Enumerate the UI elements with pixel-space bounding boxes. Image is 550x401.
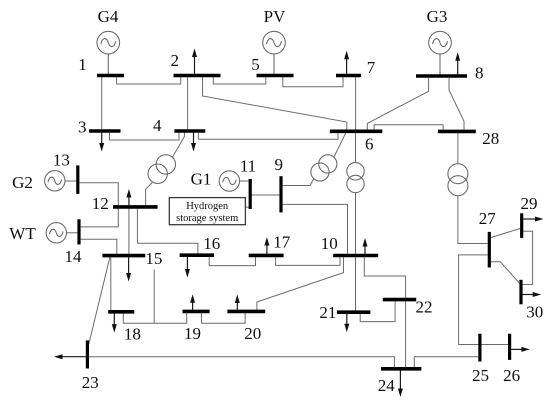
svg-text:2: 2 <box>170 51 179 70</box>
generator G3 <box>429 31 452 74</box>
svg-text:27: 27 <box>479 209 497 228</box>
svg-text:G3: G3 <box>427 7 448 26</box>
bus 16 <box>180 253 214 257</box>
wire 15-23 diagonal <box>88 258 110 349</box>
wire 24-25 <box>414 357 478 367</box>
generator G2 <box>45 171 65 191</box>
bus 9 <box>279 176 282 212</box>
svg-text:12: 12 <box>92 194 109 213</box>
bus 21 <box>337 310 371 314</box>
bus 5 <box>257 74 294 78</box>
wire transformer T6-9 to bus 9 <box>283 179 314 186</box>
wire 8-6 <box>367 78 428 130</box>
bus 30 <box>519 280 522 305</box>
load arrow bus 2 <box>192 49 197 75</box>
wire 10-21 <box>355 257 357 310</box>
wire 22-24 <box>405 301 407 367</box>
svg-text:Hydrogen: Hydrogen <box>186 201 229 212</box>
wire 27-30 <box>491 262 520 284</box>
svg-text:4: 4 <box>153 116 162 135</box>
bus 25 <box>478 334 481 362</box>
svg-text:30: 30 <box>526 302 543 321</box>
bus 18 <box>108 310 134 314</box>
wire 6-7 <box>355 77 357 130</box>
svg-text:1: 1 <box>78 55 87 74</box>
wire 25-26 <box>482 344 509 346</box>
bus 2 <box>174 74 221 78</box>
wire 15-19 vertical <box>153 270 155 324</box>
wire 8-28 <box>449 78 464 130</box>
load arrow bus 26 <box>511 347 530 352</box>
wire G2 lead <box>65 180 77 182</box>
load arrow bus 24 <box>398 371 403 398</box>
svg-text:24: 24 <box>378 376 396 395</box>
svg-text:G2: G2 <box>12 173 33 192</box>
bus 28 <box>438 130 476 134</box>
svg-text:18: 18 <box>124 325 141 344</box>
svg-text:13: 13 <box>53 150 70 169</box>
bus 6 <box>330 130 383 134</box>
wire 9-10 <box>283 204 348 254</box>
wire 2-4 <box>187 77 189 130</box>
bus 4 <box>174 129 205 133</box>
load arrow bus 21 <box>344 314 349 332</box>
wire WT lead <box>66 232 77 234</box>
wire 5-7 <box>283 77 343 87</box>
load arrow bus 3 <box>99 133 104 152</box>
wire 3-4 <box>110 133 180 140</box>
svg-text:7: 7 <box>367 58 376 77</box>
bus 14 <box>77 219 80 244</box>
wire hydrogen box to bus 11 <box>245 206 248 208</box>
bus 27 <box>488 232 491 268</box>
bus 10 <box>333 254 378 258</box>
load arrow bus 18 <box>112 314 117 333</box>
wire 21-22 <box>360 301 395 321</box>
load arrow bus 29 <box>523 217 543 222</box>
bus 26 <box>508 334 511 360</box>
svg-text:3: 3 <box>78 118 87 137</box>
svg-text:WT: WT <box>9 224 36 243</box>
load arrow bus 20 <box>235 295 240 310</box>
wire 2-6 <box>203 77 347 130</box>
wire 10-22 <box>364 257 405 298</box>
wire 19-20 <box>201 313 245 323</box>
transformer T28-27 <box>448 164 468 196</box>
wire 23-24 <box>89 357 395 367</box>
generator G1 <box>219 171 239 191</box>
transformer T6-9 <box>311 155 337 181</box>
svg-text:21: 21 <box>319 303 336 322</box>
svg-text:22: 22 <box>416 298 433 317</box>
wire 25-27 <box>459 255 488 345</box>
wire 28 to transformer T28-27 <box>457 133 459 164</box>
svg-text:11: 11 <box>240 157 256 176</box>
svg-text:G4: G4 <box>98 7 119 26</box>
bus 15 <box>102 254 145 258</box>
wire 16-17 <box>209 257 255 266</box>
wire 29-30 <box>523 231 533 284</box>
svg-text:23: 23 <box>82 373 99 392</box>
bus 8 <box>416 74 467 78</box>
load arrow bus 23 <box>54 354 86 359</box>
bus 11 <box>249 179 252 209</box>
wire 17-10 <box>276 257 340 265</box>
bus 13 <box>76 165 79 194</box>
wire 1-3 <box>101 77 103 130</box>
bus 19 <box>183 310 210 314</box>
load arrow bus 30 <box>523 292 542 297</box>
wire 12-16 <box>137 208 198 254</box>
bus 20 <box>227 310 265 314</box>
wire 27-29 diagonal <box>491 229 520 238</box>
generator PV <box>263 31 286 74</box>
transformer T6-10 <box>347 163 364 193</box>
svg-text:PV: PV <box>264 7 286 26</box>
svg-text:G1: G1 <box>191 170 212 189</box>
wire 6 to transformer T6-10 <box>355 133 357 163</box>
wire 6-28 <box>374 125 443 130</box>
bus 23 <box>86 340 89 368</box>
load arrow bus 12 <box>126 189 131 205</box>
wire 14-12 <box>81 208 119 227</box>
svg-text:16: 16 <box>203 234 220 253</box>
generator G4 <box>97 31 120 74</box>
generator WT <box>46 223 66 243</box>
load arrow bus 4 <box>191 133 196 152</box>
wire 13-12 <box>79 183 118 206</box>
svg-text:8: 8 <box>475 64 484 83</box>
svg-text:6: 6 <box>365 134 374 153</box>
svg-text:9: 9 <box>274 155 283 174</box>
svg-text:25: 25 <box>472 366 489 385</box>
transformer T4-12 <box>148 155 176 184</box>
load arrow bus 17 <box>264 237 269 254</box>
wire 6 to transformer T6-9 <box>334 133 346 157</box>
svg-text:29: 29 <box>521 194 538 213</box>
hydrogen storage system box <box>169 198 245 225</box>
bus 24 <box>381 367 421 371</box>
wire 14-15 <box>81 239 117 254</box>
svg-text:14: 14 <box>65 247 83 266</box>
wire transformer T28-27 to bus 27 <box>458 196 488 244</box>
svg-text:28: 28 <box>482 129 499 148</box>
svg-text:20: 20 <box>244 324 261 343</box>
svg-text:15: 15 <box>145 249 162 268</box>
svg-text:storage system: storage system <box>176 213 238 224</box>
bus 17 <box>249 254 284 258</box>
svg-text:10: 10 <box>321 234 338 253</box>
svg-text:17: 17 <box>273 232 291 251</box>
load arrow bus 16 <box>185 257 190 278</box>
wire G1 lead <box>240 180 249 182</box>
svg-text:19: 19 <box>184 324 201 343</box>
wire 2-5 <box>213 77 265 84</box>
load arrow bus 19 <box>190 294 195 309</box>
wire 12-15 <box>128 208 130 254</box>
wire 10-20 <box>257 257 344 310</box>
wire 4-6 <box>198 133 338 140</box>
wire 18-19 <box>123 313 186 323</box>
bus 22 <box>383 298 416 302</box>
wire 9-11 <box>252 194 280 196</box>
load arrow bus 8 <box>455 52 460 74</box>
wire 15-18 <box>110 257 112 310</box>
load arrow bus 15 <box>126 257 131 281</box>
svg-text:26: 26 <box>503 366 520 385</box>
wire 4 to transformer T4-12 <box>172 133 184 158</box>
bus 12 <box>113 205 158 209</box>
wire transformer T6-10 to bus 10 <box>355 192 357 254</box>
svg-text:5: 5 <box>251 55 260 74</box>
load arrow bus 10 <box>363 238 368 254</box>
bus 29 <box>520 213 523 238</box>
bus 1 <box>97 74 124 78</box>
wire transformer T4-12 to bus 12 <box>146 182 153 205</box>
bus 3 <box>89 129 121 133</box>
bus 7 <box>336 74 361 78</box>
wire 1-2 <box>117 77 181 84</box>
load arrow bus 7 <box>344 51 349 74</box>
